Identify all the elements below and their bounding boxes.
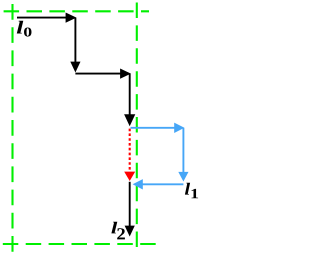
label l1 letter l — [185, 183, 190, 195]
label l0 subscript 0 — [24, 28, 32, 37]
label l0 letter l — [17, 21, 23, 34]
dashed boundary bottom edge — [3, 243, 158, 245]
arrowhead right at corner D — [120, 69, 131, 79]
blue arrowhead right — [174, 123, 184, 133]
arrowhead down at corner C — [70, 62, 80, 73]
label l2 subscript 2 — [117, 228, 125, 239]
wire l0 segment 4 vertical — [129, 74, 131, 116]
arrowhead down at end of l2 — [125, 226, 135, 237]
red arrowhead down — [124, 172, 135, 181]
wire l0 segment 2 vertical — [74, 18, 76, 62]
label l2 letter l — [111, 222, 117, 234]
wire l0 segment 3 horizontal — [75, 73, 121, 75]
dashed boundary right edge — [136, 3, 138, 249]
blue detour segment 2 vertical down — [182, 128, 184, 173]
blue arrowhead left — [133, 179, 143, 189]
red dotted displacement segment — [129, 129, 131, 172]
arrowhead right at corner B — [66, 13, 77, 23]
label l1 subscript 1 — [191, 189, 198, 198]
arrowhead down at node E — [124, 114, 135, 126]
dashed boundary top edge — [4, 10, 149, 12]
blue detour segment 1 horizontal right — [131, 127, 176, 129]
dashed boundary left edge — [11, 4, 13, 252]
wire l2 vertical — [129, 182, 131, 226]
blue arrowhead down — [178, 172, 188, 182]
wire l0 segment 1 horizontal — [17, 17, 67, 19]
blue detour segment 3 horizontal left — [142, 183, 183, 185]
